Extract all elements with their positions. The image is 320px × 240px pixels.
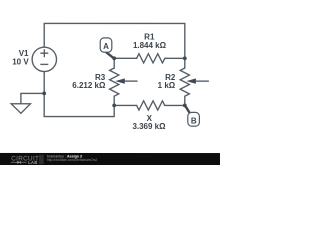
resistor R3 (variable) [110,68,119,96]
R3 wiper arrow [115,78,137,83]
resistor R1 [137,54,165,63]
ground [11,104,30,114]
resistor X [137,101,165,110]
wire X left [114,104,136,106]
wire ground branch [21,93,44,103]
wire R3 bottom [113,96,115,105]
wire node A column [113,58,115,68]
svg-text:B: B [191,117,197,126]
wire V1 bottom to bottom rail [44,72,114,117]
resistor R2 (variable) [180,68,189,96]
svg-text:1 kΩ: 1 kΩ [158,81,176,90]
wire X right [165,104,185,106]
voltage source V1 [32,47,56,71]
junction node B [183,104,187,108]
R2 wiper arrow [186,78,209,83]
node A flag [100,38,113,58]
footer logo badge [39,155,44,165]
junction ground-V1 [42,91,46,95]
svg-text:LAB: LAB [28,160,38,165]
wire top rail [44,23,185,58]
svg-text:A: A [103,42,109,51]
wire R1 left [114,57,136,59]
node B flag [185,106,199,126]
junction R1-R2 [183,56,187,60]
footer bar [0,153,223,168]
footer CircuitLab logo [11,155,39,165]
svg-text:3.369 kΩ: 3.369 kΩ [132,122,166,131]
svg-text:6.212 kΩ: 6.212 kΩ [72,81,106,90]
svg-text:http:∕∕circuitlab.com∕c∕5nfabn: http:∕∕circuitlab.com∕c∕5nfabnwm2rs2 [47,158,98,162]
wire R2 bottom [184,96,186,105]
svg-text:1.844 kΩ: 1.844 kΩ [133,41,167,50]
junction node A [112,56,116,60]
wire R1 right [165,57,185,59]
svg-text:10 V: 10 V [12,58,29,67]
wire R2 top [184,58,186,68]
junction R3-X [112,104,116,108]
